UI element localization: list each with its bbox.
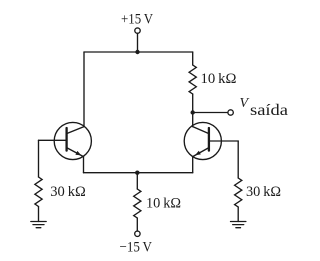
svg-text:−15 V: −15 V [120, 240, 153, 256]
wire RE to -15V terminal [136, 218, 138, 231]
Q1 emitter arrow [75, 151, 81, 156]
Q1 base bar [65, 128, 67, 151]
Q2 emitter lead [192, 157, 194, 173]
svg-text:+15 V: +15 V [121, 11, 153, 27]
resistor R2 30kohm right [235, 178, 242, 207]
ground left [31, 222, 46, 228]
resistor RC 10kohm [189, 65, 196, 94]
wire R1 to ground [38, 207, 40, 222]
terminal +15V [135, 28, 140, 33]
Q2 body circle [184, 122, 221, 159]
terminal Vsaida [228, 110, 233, 115]
wire emitter rail [84, 172, 193, 174]
terminal -15V [135, 231, 140, 236]
wire RC bottom to Q2 collector [192, 94, 194, 127]
svg-text:V: V [240, 96, 250, 111]
Q2 emitter arrow [195, 151, 201, 156]
svg-text:30 kΩ: 30 kΩ [246, 184, 281, 200]
wire Q2 base corner drop [237, 141, 239, 178]
transistor Q2 [184, 122, 238, 172]
resistor RE 10kohm [134, 189, 141, 218]
ground right [231, 222, 246, 228]
Q1 body circle [54, 122, 91, 159]
Q1 base lead [39, 139, 67, 141]
svg-text:10 kΩ: 10 kΩ [201, 71, 237, 87]
Q2 collector diagonal [193, 127, 209, 134]
svg-text:30 kΩ: 30 kΩ [50, 184, 86, 200]
Q1 emitter diagonal [67, 148, 84, 157]
wire emitter node to RE [136, 173, 138, 189]
Q1 emitter lead [83, 157, 85, 173]
wire R2 to ground [237, 207, 239, 222]
wire +15V terminal to junction [137, 33, 139, 52]
svg-text:10 kΩ: 10 kΩ [146, 196, 181, 212]
Q2 emitter diagonal [193, 148, 209, 157]
Q2 base lead [209, 140, 238, 142]
junction output node [191, 110, 195, 114]
junction top node [135, 50, 139, 54]
wire top rail [84, 51, 193, 53]
Q2 base bar [208, 128, 210, 151]
transistor Q1 [39, 122, 92, 172]
wire left drop to Q1 collector [83, 52, 85, 127]
resistor R1 30kohm left [35, 177, 42, 207]
wire Q1 base corner drop [38, 140, 40, 177]
wire right drop to RC [192, 52, 194, 65]
junction emitter node [135, 171, 139, 175]
Q1 collector diagonal [67, 127, 84, 134]
svg-text:saída: saída [250, 102, 288, 119]
wire output node to terminal [193, 112, 228, 114]
